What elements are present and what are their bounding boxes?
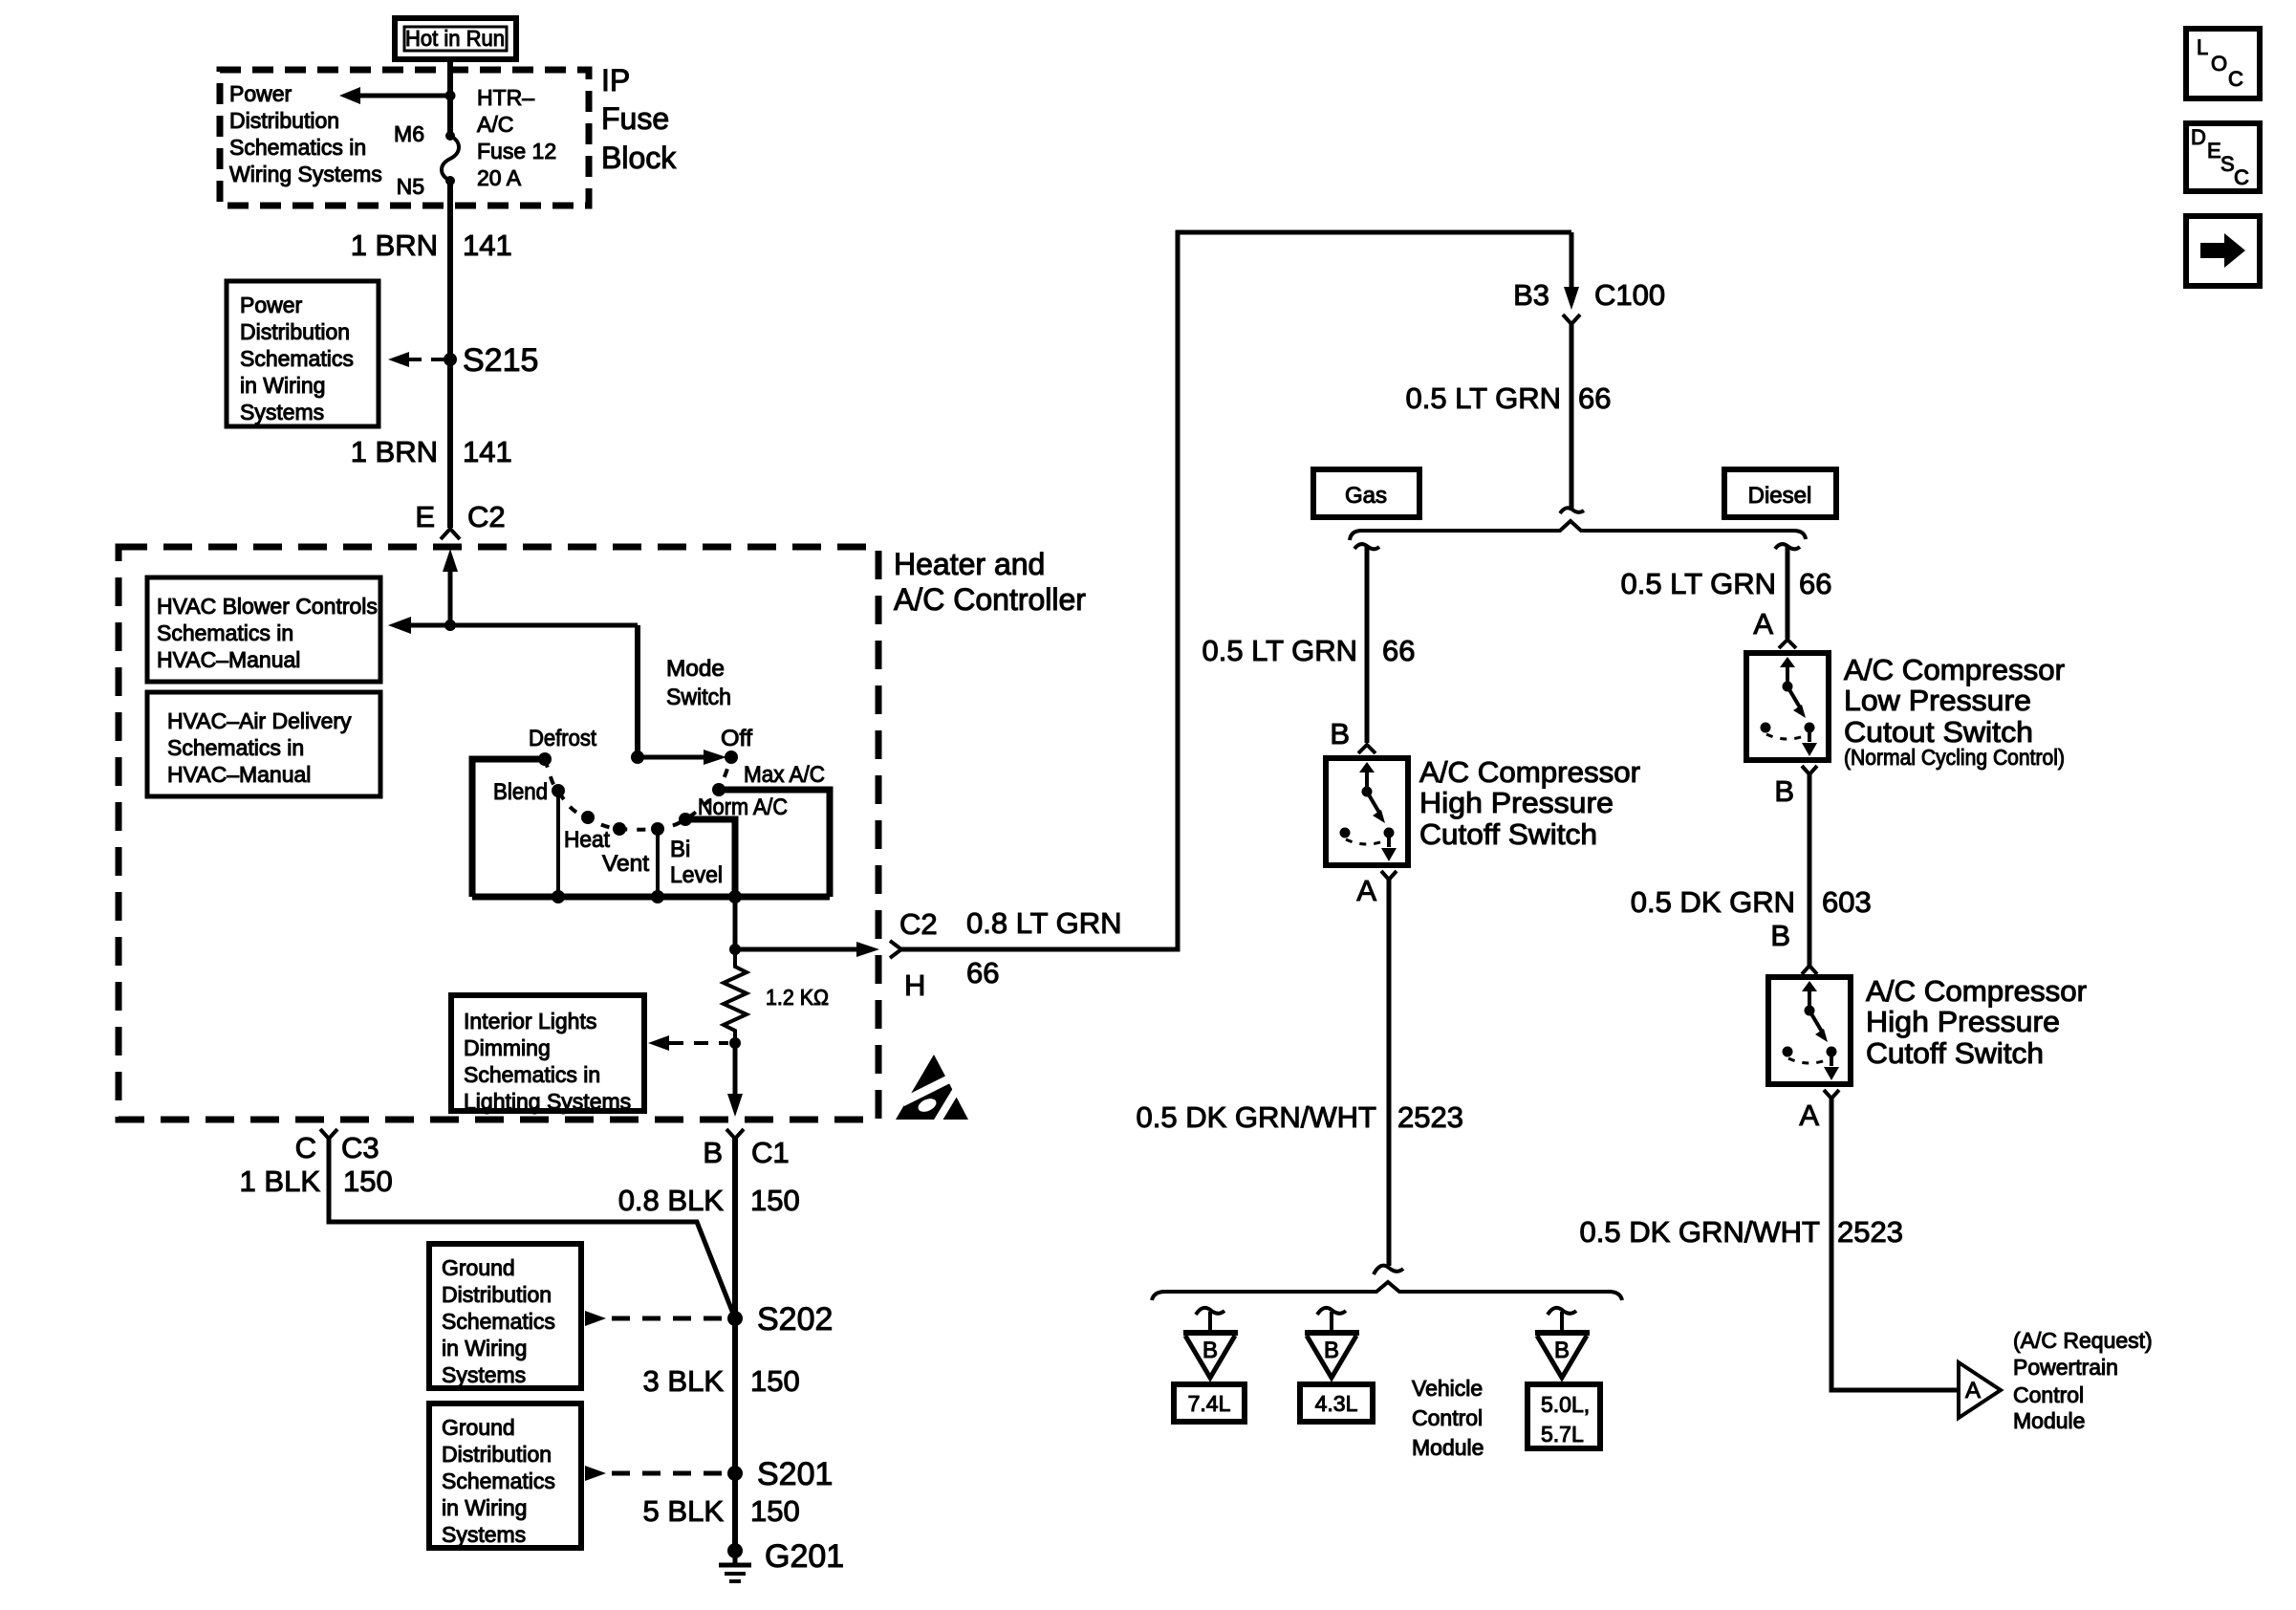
label A/C Compressor Low Pressure Cutout Switch (1844, 653, 2065, 770)
svg-text:Schematics in: Schematics in (167, 735, 304, 760)
svg-text:Distribution: Distribution (442, 1282, 552, 1307)
wire label 1 BRN 141 (upper) (351, 228, 512, 262)
option split brace (1350, 521, 1806, 540)
svg-text:Off: Off (721, 726, 752, 751)
svg-text:Distribution: Distribution (240, 319, 350, 344)
svg-text:Interior Lights: Interior Lights (464, 1009, 596, 1033)
svg-text:0.5 DK GRN: 0.5 DK GRN (1631, 885, 1795, 919)
svg-text:A: A (1356, 874, 1376, 907)
wire label 0.5 LT GRN 66 (diesel) (1620, 567, 1831, 600)
svg-text:B: B (1770, 919, 1790, 952)
svg-text:Ground: Ground (442, 1255, 515, 1280)
svg-text:66: 66 (1578, 381, 1611, 415)
svg-text:Vent: Vent (602, 851, 649, 877)
svg-text:Module: Module (1412, 1435, 1484, 1460)
mode switch position Bi Level (651, 822, 723, 903)
power source box Hot in Run (395, 18, 516, 59)
svg-text:Cutoff Switch: Cutoff Switch (1419, 817, 1597, 851)
svg-text:A: A (1965, 1378, 1981, 1403)
connector pin A of diesel high pressure switch (1799, 1090, 1839, 1132)
svg-text:Schematics in: Schematics in (229, 135, 366, 160)
svg-text:E: E (2207, 139, 2221, 163)
svg-text:Heater and: Heater and (894, 547, 1045, 581)
node junction to blower controls branch (444, 620, 456, 631)
connector pin B of low pressure cutout switch (1774, 766, 1817, 808)
wire resistor output to connector C1 pin B (727, 1043, 743, 1117)
connector C100 pin B3 (1513, 232, 1665, 324)
svg-text:Switch: Switch (666, 685, 731, 710)
connector C1 pin B chevron (703, 1129, 789, 1169)
IP fuse block dashed outline (220, 70, 589, 206)
svg-text:Heat: Heat (564, 827, 610, 853)
svg-text:M6: M6 (394, 121, 424, 146)
connector triangle A Powertrain Control Module (1959, 1362, 2001, 1418)
svg-text:Ground: Ground (442, 1415, 515, 1440)
label Power Distribution Schematics in Wiring Systems (229, 81, 382, 186)
svg-text:B: B (1554, 1338, 1570, 1363)
splice S215 (388, 342, 538, 379)
svg-text:L: L (2197, 35, 2208, 59)
svg-text:C: C (2228, 67, 2243, 91)
svg-text:0.5 DK GRN/WHT: 0.5 DK GRN/WHT (1137, 1100, 1377, 1134)
wire label 0.5 DK GRN 603 (1631, 885, 1872, 919)
svg-text:Vehicle: Vehicle (1412, 1376, 1483, 1401)
svg-text:141: 141 (463, 228, 512, 262)
svg-text:A/C Compressor: A/C Compressor (1866, 974, 2087, 1008)
option box 7.4L (1174, 1384, 1245, 1422)
svg-text:0.8 LT GRN: 0.8 LT GRN (966, 906, 1122, 940)
svg-text:C3: C3 (341, 1131, 379, 1164)
connector C2 pin H chevron (890, 941, 901, 958)
svg-text:Distribution: Distribution (229, 108, 339, 133)
wire C3 ground lead to splice S202 (329, 1139, 735, 1318)
mode switch position Max A/C (712, 762, 830, 897)
svg-text:High Pressure: High Pressure (1419, 786, 1614, 819)
mode switch wiper arrow to Off (638, 750, 726, 765)
svg-text:0.8 BLK: 0.8 BLK (618, 1184, 725, 1217)
svg-text:G201: G201 (765, 1538, 844, 1575)
mode switch position Defrost (529, 726, 596, 766)
mode switch frame left side (472, 759, 545, 897)
svg-text:Distribution: Distribution (442, 1442, 552, 1467)
wire fuse output down to connector C2 pin E (447, 181, 453, 528)
reference box Power Distribution Schematics in Wiring Systems (227, 281, 379, 426)
switch A/C Compressor High Pressure Cutoff Switch (gas) (1326, 758, 1408, 865)
label IP Fuse Block (601, 63, 677, 175)
fuse HTR-A/C Fuse 12 20 A (442, 131, 459, 185)
svg-text:S: S (2220, 152, 2235, 176)
reference box Ground Distribution upper (429, 1244, 581, 1388)
svg-text:150: 150 (750, 1184, 800, 1217)
option tag box Gas (1313, 469, 1419, 517)
connector triangle B 7.4L (1183, 1308, 1238, 1378)
connector pin A of low pressure cutout switch (1753, 607, 1796, 648)
svg-text:5.0L,: 5.0L, (1541, 1392, 1590, 1417)
svg-text:Control: Control (2013, 1382, 2084, 1407)
switch A/C Compressor Low Pressure Cutout Switch (1746, 653, 1829, 760)
svg-text:C2: C2 (899, 907, 938, 941)
svg-text:A/C Compressor: A/C Compressor (1419, 755, 1640, 789)
Heater and A/C Controller dashed outline (119, 547, 878, 1120)
wire label 1 BLK 150 (240, 1164, 393, 1198)
svg-text:D: D (2191, 125, 2206, 149)
wire diesel switch output to PCM (1831, 1099, 1959, 1390)
svg-text:C1: C1 (751, 1136, 790, 1169)
mode switch wiper node (631, 751, 644, 764)
wire down to mode switch common (635, 625, 640, 757)
svg-text:A: A (1753, 607, 1773, 641)
svg-text:Cutout Switch: Cutout Switch (1844, 715, 2033, 749)
VCM engine option brace (1152, 1282, 1622, 1300)
svg-text:Diesel: Diesel (1748, 483, 1812, 509)
svg-text:HVAC–Manual: HVAC–Manual (167, 762, 311, 787)
svg-text:S202: S202 (757, 1301, 833, 1338)
resistor 1.2 Kohm (724, 949, 829, 1043)
mode switch output node (728, 890, 742, 903)
svg-text:B: B (1330, 717, 1350, 751)
svg-text:20 A: 20 A (477, 165, 522, 190)
svg-text:Cutoff Switch: Cutoff Switch (1866, 1036, 2044, 1070)
svg-text:A/C Compressor: A/C Compressor (1844, 653, 2065, 686)
svg-text:Fuse 12: Fuse 12 (477, 139, 556, 163)
svg-text:Schematics in: Schematics in (157, 620, 293, 645)
wire mode switch output down (733, 897, 738, 949)
svg-text:0.5 LT GRN: 0.5 LT GRN (1202, 634, 1357, 667)
svg-text:S215: S215 (463, 342, 538, 379)
svg-text:HVAC–Air Delivery: HVAC–Air Delivery (167, 708, 352, 733)
wire branch to power distribution reference (339, 87, 450, 104)
svg-text:A/C: A/C (477, 112, 513, 137)
wire C100 down to engine option split (1560, 324, 1584, 513)
svg-text:High Pressure: High Pressure (1866, 1005, 2060, 1038)
svg-text:B: B (1324, 1338, 1339, 1363)
icon box DESC (2186, 123, 2260, 191)
svg-text:2523: 2523 (1397, 1100, 1463, 1134)
svg-text:C2: C2 (467, 500, 506, 533)
wire label 0.5 DK GRN/WHT 2523 (gas) (1137, 1100, 1463, 1134)
svg-text:Power: Power (229, 81, 292, 106)
svg-text:5 BLK: 5 BLK (643, 1494, 725, 1528)
ground G201 (719, 1538, 844, 1581)
svg-text:0.5 LT GRN: 0.5 LT GRN (1405, 381, 1561, 415)
svg-text:Systems: Systems (442, 1362, 526, 1387)
reference box HVAC-Air Delivery (147, 692, 380, 796)
label A/C Compressor High Pressure Cutoff Switch (diesel) (1866, 974, 2087, 1070)
svg-text:E: E (415, 500, 435, 533)
icon box arrow (2186, 216, 2260, 286)
svg-text:1.2 KΩ: 1.2 KΩ (766, 985, 829, 1010)
svg-text:H: H (904, 968, 925, 1002)
icon box LOC (2186, 29, 2260, 98)
svg-text:Hot in Run: Hot in Run (405, 26, 505, 51)
svg-text:0.5 DK GRN/WHT: 0.5 DK GRN/WHT (1580, 1215, 1821, 1249)
wire gas switch output down to VCM split (1374, 880, 1403, 1274)
svg-text:A: A (1799, 1099, 1819, 1132)
svg-text:3 BLK: 3 BLK (643, 1364, 725, 1398)
wire label 0.5 DK GRN/WHT 2523 (diesel) (1580, 1215, 1903, 1249)
label A/C Compressor High Pressure Cutoff Switch (gas) (1419, 755, 1640, 851)
connector pin A of gas high pressure switch (1356, 871, 1397, 907)
mode switch position Vent (602, 822, 649, 877)
svg-text:Schematics in: Schematics in (464, 1062, 600, 1087)
svg-text:C: C (295, 1131, 316, 1164)
svg-text:Systems: Systems (442, 1522, 526, 1547)
svg-text:7.4L: 7.4L (1188, 1391, 1231, 1416)
svg-text:Schematics: Schematics (442, 1309, 555, 1334)
wire label 3 BLK 150 (643, 1364, 800, 1398)
svg-text:603: 603 (1822, 885, 1872, 919)
splice S201 (585, 1456, 833, 1492)
mode switch rotary dashed arc (545, 757, 731, 830)
svg-text:4.3L: 4.3L (1315, 1391, 1358, 1416)
svg-text:Level: Level (670, 862, 723, 888)
wire label 0.5 LT GRN 66 (main) (1405, 381, 1611, 415)
svg-text:Powertrain: Powertrain (2013, 1355, 2118, 1380)
svg-text:Max A/C: Max A/C (744, 762, 825, 788)
wire from C2 H to right section (901, 232, 1571, 949)
mode switch position Norm A/C (679, 794, 788, 897)
mode switch frame bottom (472, 894, 830, 901)
splice S202 (585, 1301, 833, 1338)
label Mode Switch (666, 656, 731, 710)
wire C1 ground lead down to G201 (732, 1139, 738, 1551)
svg-text:1 BRN: 1 BRN (351, 435, 438, 468)
wire low pressure switch output down (1808, 774, 1812, 966)
svg-text:Defrost: Defrost (529, 726, 596, 751)
svg-text:Bi: Bi (670, 837, 690, 862)
fuse value label (477, 85, 556, 190)
svg-text:O: O (2211, 52, 2227, 76)
svg-text:C100: C100 (1594, 278, 1665, 312)
wire label 1 BRN 141 (lower) (351, 435, 512, 468)
node junction at fuse feed (445, 91, 456, 101)
svg-text:Dimming: Dimming (464, 1035, 551, 1060)
svg-text:in Wiring: in Wiring (240, 373, 325, 398)
svg-text:66: 66 (966, 956, 999, 990)
connector C2 pin E into heater controller (415, 500, 505, 539)
svg-text:Gas: Gas (1345, 483, 1387, 509)
option tag box Diesel (1724, 469, 1836, 517)
svg-text:B: B (1774, 774, 1794, 808)
svg-text:Power: Power (240, 293, 303, 317)
mode switch position Blend (493, 779, 565, 903)
switch A/C Compressor High Pressure Cutoff Switch (diesel) (1768, 977, 1851, 1084)
option box 5.0L 5.7L (1527, 1384, 1600, 1448)
connector pin B of diesel high pressure switch (1770, 919, 1817, 974)
connector pin B of gas high pressure switch (1330, 717, 1375, 753)
svg-text:Systems: Systems (240, 400, 324, 424)
svg-text:141: 141 (463, 435, 512, 468)
mode switch position Off (721, 726, 752, 764)
svg-text:Block: Block (601, 141, 677, 175)
option box 4.3L (1300, 1384, 1373, 1422)
svg-text:IP: IP (601, 63, 630, 98)
connector triangle B 4.3L (1305, 1308, 1359, 1378)
wire label 0.5 LT GRN 66 (gas) (1202, 634, 1415, 667)
svg-text:150: 150 (750, 1494, 800, 1528)
svg-text:in Wiring: in Wiring (442, 1336, 527, 1360)
label Powertrain Control Module (2013, 1328, 2153, 1433)
svg-text:(A/C Request): (A/C Request) (2013, 1328, 2153, 1353)
svg-text:N5: N5 (397, 174, 424, 199)
connector C3 pin C chevron (295, 1129, 379, 1164)
svg-text:A/C Controller: A/C Controller (894, 582, 1086, 617)
svg-text:0.5 LT GRN: 0.5 LT GRN (1620, 567, 1776, 600)
svg-text:Blend: Blend (493, 779, 548, 805)
svg-text:B: B (1202, 1338, 1218, 1363)
splice to interior lights dimming reference (648, 1035, 741, 1051)
wire branch to HVAC blower controls reference (388, 617, 638, 634)
svg-text:1 BLK: 1 BLK (240, 1164, 321, 1198)
svg-text:5.7L: 5.7L (1541, 1422, 1584, 1447)
svg-text:Wiring Systems: Wiring Systems (229, 162, 382, 186)
svg-text:2523: 2523 (1837, 1215, 1903, 1249)
svg-text:S201: S201 (757, 1456, 833, 1492)
svg-text:HVAC Blower Controls: HVAC Blower Controls (157, 594, 378, 619)
svg-text:HVAC–Manual: HVAC–Manual (157, 647, 300, 672)
svg-text:Fuse: Fuse (601, 101, 669, 136)
wire label 0.8 BLK 150 (618, 1184, 800, 1217)
ESD sensitive device symbol (896, 1055, 968, 1122)
node junction at resistor top (729, 944, 741, 955)
svg-text:Low Pressure: Low Pressure (1844, 684, 2031, 717)
label Heater and A/C Controller (894, 547, 1086, 617)
reference box Interior Lights Dimming (451, 995, 644, 1114)
wire entry arrow from connector E down to junction (443, 549, 458, 625)
svg-text:in Wiring: in Wiring (442, 1495, 527, 1520)
reference box HVAC Blower Controls (147, 577, 380, 682)
wire from Hot in Run into IP fuse block (447, 59, 453, 136)
svg-text:HTR–: HTR– (477, 85, 534, 110)
svg-text:66: 66 (1799, 567, 1831, 600)
svg-text:Module: Module (2013, 1408, 2085, 1433)
reference box Ground Distribution lower (429, 1403, 581, 1548)
svg-text:B3: B3 (1513, 278, 1549, 312)
svg-text:Control: Control (1412, 1405, 1483, 1430)
svg-text:Lighting Systems: Lighting Systems (464, 1089, 631, 1114)
svg-text:1 BRN: 1 BRN (351, 228, 438, 262)
svg-text:Schematics: Schematics (442, 1469, 555, 1493)
svg-text:Mode: Mode (666, 656, 725, 682)
svg-text:150: 150 (750, 1364, 800, 1398)
svg-text:B: B (703, 1136, 723, 1169)
label Vehicle Control Module (1412, 1376, 1484, 1460)
svg-text:(Normal Cycling Control): (Normal Cycling Control) (1844, 745, 2065, 770)
mode switch position Heat (564, 811, 610, 853)
wire diesel branch start curl (1775, 544, 1800, 639)
svg-text:66: 66 (1382, 634, 1415, 667)
wire to connector C2 pin H (735, 942, 879, 957)
svg-text:C: C (2234, 165, 2249, 189)
label C2 H 0.8 LT GRN 66 (899, 906, 1122, 1002)
svg-text:150: 150 (343, 1164, 393, 1198)
svg-text:Schematics: Schematics (240, 346, 354, 371)
connector triangle B 5.0L 5.7L (1535, 1308, 1590, 1378)
wire gas branch start curl (1354, 544, 1379, 743)
wire label 5 BLK 150 (643, 1494, 800, 1528)
